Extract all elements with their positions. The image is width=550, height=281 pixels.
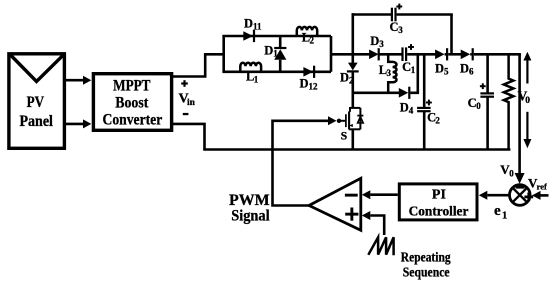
- wire MPPT top output to ladder input: [173, 54, 224, 76]
- label D11: [244, 17, 262, 32]
- PI Controller box: [399, 184, 477, 220]
- svg-text:3: 3: [387, 68, 392, 78]
- wire D6 to output corner: [474, 53, 521, 56]
- label D5: [435, 62, 449, 77]
- wire D3 to C1: [379, 53, 402, 56]
- label - (summing minus): [516, 186, 525, 189]
- svg-text:12: 12: [309, 81, 319, 91]
- label L2: [302, 30, 315, 45]
- svg-text:PWM: PWM: [229, 192, 270, 209]
- svg-text:Converter: Converter: [103, 111, 163, 128]
- inductor L2: [297, 27, 317, 37]
- diode D6: [461, 48, 474, 60]
- capacitor C2 branch: [417, 54, 431, 149]
- capacitor C0 branch: [480, 54, 494, 149]
- svg-text:0: 0: [525, 96, 530, 106]
- arrow V0 into summing junction: [515, 173, 525, 184]
- capacitor C3 branch: left vertical from node A: [351, 13, 354, 54]
- wire PWM gate drive: [273, 121, 329, 206]
- svg-text:C: C: [468, 96, 477, 110]
- wire bottom rail: [203, 148, 510, 151]
- svg-text:Controller: Controller: [409, 204, 469, 219]
- MPPT Boost Converter label: [103, 77, 163, 128]
- svg-text:Sequence: Sequence: [403, 265, 450, 280]
- label C2: [427, 110, 440, 125]
- svg-text:11: 11: [253, 21, 262, 31]
- arrow PV to MPPT (top): [66, 76, 91, 85]
- capacitor C1: [401, 47, 407, 61]
- svg-text:D: D: [340, 70, 349, 84]
- label Repeating Sequence: [401, 250, 451, 280]
- svg-text:S: S: [341, 130, 347, 142]
- label D6: [460, 62, 474, 77]
- svg-text:1: 1: [254, 74, 259, 84]
- wire C3 top right: [397, 13, 453, 16]
- repeating sequence sawtooth: [368, 237, 393, 255]
- svg-text:Repeating: Repeating: [401, 250, 451, 265]
- inductor L1: [240, 63, 261, 73]
- wire MPPT bottom output: [173, 124, 205, 150]
- svg-text:1: 1: [502, 210, 507, 221]
- label + (C3 polarity): [396, 6, 402, 8]
- arrow into PI controller: [479, 191, 488, 200]
- wire C3 right vertical (to node between D5 and D6): [450, 15, 453, 55]
- arrow V0 dimension up: [523, 52, 531, 84]
- diode D11: [243, 30, 255, 42]
- PV panel label: [19, 94, 53, 130]
- label D1: [264, 43, 278, 58]
- svg-text:D: D: [300, 77, 309, 91]
- label D12: [300, 77, 319, 92]
- wire ladder output to node A: [331, 53, 354, 56]
- svg-text:D: D: [435, 62, 444, 76]
- svg-text:4: 4: [409, 105, 414, 115]
- svg-text:D: D: [264, 43, 273, 57]
- svg-text:Panel: Panel: [19, 113, 53, 130]
- summing junction: [510, 185, 531, 206]
- node ladder left vertical: [222, 36, 225, 72]
- wire output corner down (V0 feedback): [518, 54, 521, 174]
- label Vin: [179, 92, 196, 108]
- svg-text:D: D: [370, 34, 379, 48]
- label Vref: [528, 176, 547, 192]
- svg-text:5: 5: [444, 67, 449, 77]
- wire D4 cathode up to main rail: [410, 54, 417, 93]
- svg-text:3: 3: [398, 25, 403, 35]
- svg-text:PV: PV: [27, 94, 45, 111]
- diode D2 (vertical at node A): [347, 54, 359, 94]
- svg-text:D: D: [244, 17, 253, 31]
- label + (C2 polarity): [426, 102, 432, 104]
- svg-text:D: D: [460, 62, 469, 76]
- inductor L3 (vertical): [388, 54, 396, 93]
- svg-text:C: C: [402, 60, 411, 74]
- wire D5 to D6: [448, 53, 461, 56]
- wire lower rail node A to D4: [353, 92, 400, 95]
- diode D1 (vertical, on middle branch): [274, 36, 286, 72]
- svg-text:PI: PI: [432, 188, 446, 203]
- diode D4: [399, 87, 411, 99]
- arrow into comparator non-inverting input: [362, 211, 371, 220]
- svg-text:2: 2: [349, 75, 354, 85]
- arrow into comparator inverting input: [362, 190, 371, 199]
- wire summing junction to PI controller: [487, 194, 510, 197]
- node gate dot: [337, 119, 341, 123]
- label - (Vin minus): [183, 113, 189, 115]
- label e1: [494, 203, 507, 221]
- wire C1 to D5: [407, 53, 436, 56]
- diode D12: [303, 66, 315, 78]
- wire PI to comparator: [370, 193, 398, 196]
- MPPT Boost Converter box: [93, 74, 171, 131]
- svg-text:in: in: [187, 98, 196, 108]
- wire Vref input: [541, 194, 549, 197]
- wire main top rail (node A to D3): [353, 53, 370, 56]
- svg-text:MPPT: MPPT: [113, 77, 151, 94]
- label D4: [400, 100, 414, 115]
- wire dot to gate bar: [339, 120, 346, 122]
- label PWM Signal: [229, 192, 270, 225]
- label V0 (feedback): [500, 162, 514, 178]
- label + (summing plus): [524, 193, 533, 202]
- svg-text:D: D: [400, 100, 409, 114]
- wire repeating sequence to comparator: [370, 216, 384, 236]
- label + (C1 polarity): [408, 46, 414, 48]
- wire ladder bottom rail: [222, 71, 331, 74]
- label + (Vin plus): [181, 82, 188, 84]
- label V0 (output dimension): [518, 89, 531, 106]
- transistor S (MOSFET with body diode): [346, 93, 364, 150]
- arrow into gate: [328, 116, 337, 125]
- PV panel box: [9, 54, 65, 149]
- svg-text:2: 2: [310, 35, 315, 45]
- svg-text:0: 0: [476, 101, 481, 111]
- svg-text:Boost: Boost: [115, 94, 149, 111]
- label - (comparator inverting input): [345, 194, 358, 197]
- svg-text:ref: ref: [537, 182, 547, 192]
- label L3: [379, 63, 392, 78]
- svg-text:6: 6: [469, 67, 474, 77]
- diode D5: [435, 48, 448, 60]
- svg-text:0: 0: [509, 168, 514, 178]
- svg-text:1: 1: [273, 48, 278, 58]
- capacitor C3: [391, 8, 397, 22]
- diode D3: [369, 48, 380, 60]
- wire ladder top rail: [222, 35, 331, 38]
- svg-text:e: e: [494, 203, 501, 219]
- wire C3 top left: [352, 13, 393, 16]
- svg-text:1: 1: [411, 65, 416, 75]
- arrow V0 dimension down: [523, 112, 531, 148]
- label C0: [468, 96, 482, 111]
- label D2: [340, 70, 354, 85]
- svg-text:C: C: [390, 20, 399, 34]
- arrow PV to MPPT (bottom): [66, 119, 91, 128]
- svg-text:3: 3: [379, 39, 384, 49]
- label C1: [402, 60, 416, 75]
- label PI Controller: [409, 188, 469, 220]
- label L1: [246, 69, 259, 84]
- svg-text:2: 2: [435, 115, 440, 125]
- svg-text:Signal: Signal: [231, 208, 270, 225]
- label C3: [390, 20, 404, 35]
- resistor R load: [504, 54, 514, 149]
- op-amp comparator: [309, 178, 361, 230]
- label D3: [370, 34, 384, 49]
- node ladder right vertical: [330, 36, 333, 72]
- arrow Vref into summing junction: [532, 191, 541, 200]
- label + (C0 polarity): [480, 85, 486, 87]
- label + (comparator non-inverting input): [345, 208, 358, 221]
